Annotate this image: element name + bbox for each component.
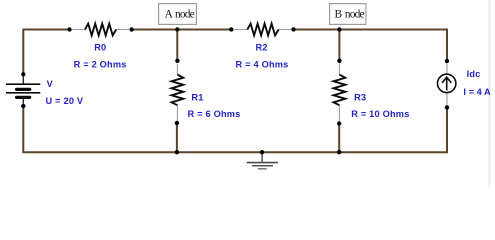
ground	[247, 152, 278, 169]
node: R3 bottom terminal	[337, 121, 341, 125]
node: R3 top terminal	[337, 59, 341, 63]
node: R1 bottom terminal	[175, 121, 179, 125]
svg-text:R = 4 Ohms: R = 4 Ohms	[236, 59, 289, 69]
resistor R0	[72, 24, 129, 36]
wire R2 to B node to current source top	[294, 30, 448, 62]
svg-text:R1: R1	[191, 92, 203, 102]
resistor R2	[234, 24, 291, 36]
node: R0 right junction	[129, 27, 133, 31]
wire R1 bottom to rail	[176, 123, 178, 152]
right window edge line	[489, 0, 490, 188]
node: current source top terminal	[445, 59, 449, 63]
svg-text:V: V	[47, 79, 54, 89]
wire bottom rail	[23, 106, 447, 152]
node: current source bottom terminal	[445, 105, 449, 109]
wire R3 bottom to rail	[338, 124, 340, 153]
svg-text:U = 20 V: U = 20 V	[46, 96, 84, 106]
svg-text:B node: B node	[335, 8, 365, 20]
node: battery top terminal	[21, 72, 25, 76]
node: R2 left junction	[229, 27, 233, 31]
svg-text:R3: R3	[354, 93, 366, 103]
svg-text:Idc: Idc	[467, 69, 481, 79]
node B label box	[330, 4, 367, 25]
svg-text:R = 10 Ohms: R = 10 Ohms	[351, 109, 409, 119]
node: R1 top terminal	[175, 59, 179, 63]
node: R0 left junction	[67, 27, 71, 31]
svg-text:I = 4 A: I = 4 A	[463, 87, 491, 97]
svg-text:R2: R2	[256, 43, 268, 53]
resistor R3	[334, 64, 346, 121]
node: R2 right junction	[291, 27, 295, 31]
node: ground junction	[260, 150, 264, 154]
node: R1 bottom rail junction	[175, 150, 179, 154]
node: R3 bottom rail junction	[337, 150, 341, 154]
resistor R1	[172, 64, 184, 121]
node A junction on top rail	[175, 27, 179, 31]
node: battery bottom terminal	[21, 104, 25, 108]
wire B node drop to R3	[338, 30, 340, 61]
node B junction on top rail	[337, 27, 341, 31]
svg-text:A node: A node	[165, 8, 195, 20]
wire R0 to A node to R2	[132, 29, 232, 31]
wire A node drop to R1	[176, 30, 178, 61]
wire top-left from battery to R0	[23, 30, 69, 75]
node A label box	[159, 4, 197, 25]
svg-text:R0: R0	[94, 43, 106, 53]
svg-text:R = 6 Ohms: R = 6 Ohms	[188, 109, 241, 119]
current source Idc	[438, 64, 456, 105]
svg-text:R = 2 Ohms: R = 2 Ohms	[74, 59, 127, 69]
battery V	[6, 76, 40, 104]
